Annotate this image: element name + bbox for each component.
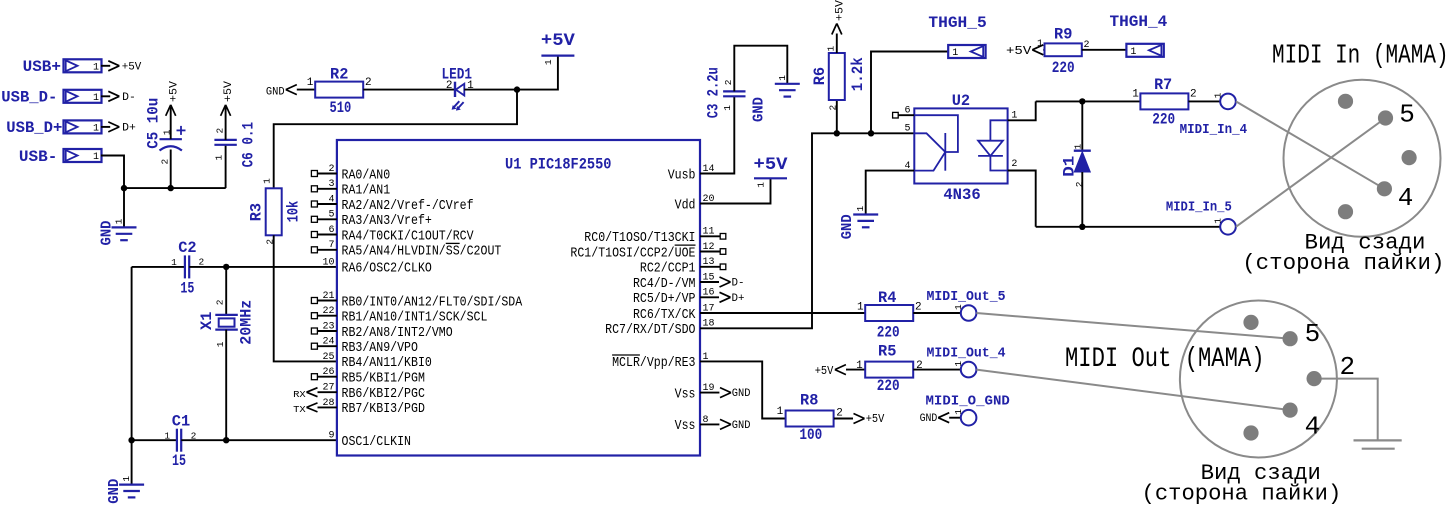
MIDI Out pin label 2 <box>1340 352 1356 382</box>
IC U1 pin 21 RB0/INT0/AN12/FLT0/SDI/SDA <box>311 291 522 310</box>
IC U1 PIC18F2550 body <box>337 140 700 456</box>
gray link pin 2 to earth <box>1314 379 1378 441</box>
svg-text:220: 220 <box>877 377 900 395</box>
wire R3 to pin 25 <box>274 235 337 361</box>
svg-text:+5V: +5V <box>223 81 235 102</box>
svg-text:1: 1 <box>213 155 224 161</box>
svg-text:RC4/D-/VM: RC4/D-/VM <box>633 276 696 292</box>
svg-text:C2: C2 <box>178 239 196 257</box>
svg-text:1: 1 <box>164 430 170 441</box>
MIDI Out socket pin dot top <box>1243 315 1258 330</box>
svg-text:RA6/OSC2/CLKO: RA6/OSC2/CLKO <box>342 261 432 277</box>
resistor R7 220 <box>1132 76 1196 128</box>
svg-text:1: 1 <box>777 75 788 81</box>
MIDI Out socket pin dot p2 <box>1307 371 1322 386</box>
MIDI In socket pin dot p5 <box>1378 110 1393 125</box>
svg-text:R8: R8 <box>800 392 818 410</box>
MIDI Out socket pin dot bot <box>1243 425 1258 440</box>
svg-text:1: 1 <box>93 124 99 135</box>
svg-text:RA4/T0CKI/C1OUT/RCV: RA4/T0CKI/C1OUT/RCV <box>342 228 475 244</box>
IC U1 pin 15 RC4/D-/VM + net flag D- <box>633 272 745 291</box>
wire top rail (U2.1 to R7) <box>1036 100 1141 102</box>
net flag RX (pin 27) <box>293 388 337 400</box>
gray link MIDI_In_4 to pin 4 <box>1236 101 1385 188</box>
IC U1 pin 20 Vdd <box>675 194 715 213</box>
net flag +5V (R8) <box>834 412 885 426</box>
wire R2 to LED1 <box>363 89 455 91</box>
svg-text:USB-: USB- <box>19 148 57 166</box>
svg-text:R7: R7 <box>1154 76 1172 94</box>
wire C2 corner down to C1 <box>131 267 133 440</box>
IC U1 pin 7 RA5/AN4/HLVDIN/SS/C2OUT <box>311 240 501 259</box>
svg-text:RA0/AN0: RA0/AN0 <box>342 167 391 183</box>
gray link MIDI_In_5 to pin 5 <box>1236 118 1386 227</box>
wire USB- to ground rail <box>101 156 226 189</box>
svg-text:4: 4 <box>1398 183 1414 213</box>
connector THGH_4 <box>1110 13 1168 58</box>
net flag GND (R2) <box>266 85 315 99</box>
svg-text:RB3/AN9/VPO: RB3/AN9/VPO <box>342 340 418 356</box>
power +5V (LED rail) <box>541 31 576 65</box>
capacitor C1 15 <box>132 413 337 471</box>
svg-text:THGH_5: THGH_5 <box>928 14 986 32</box>
svg-text:RC7/RX/DT/SDO: RC7/RX/DT/SDO <box>605 322 695 338</box>
svg-text:GND: GND <box>98 221 115 246</box>
resistor R8 100 <box>777 392 843 444</box>
svg-text:RB2/AN8/INT2/VMO: RB2/AN8/INT2/VMO <box>342 325 453 341</box>
svg-text:1: 1 <box>1037 39 1043 50</box>
svg-text:5: 5 <box>1305 319 1321 349</box>
svg-text:1: 1 <box>952 48 958 59</box>
svg-text:1: 1 <box>756 182 767 188</box>
wire R9 to THGH_4 <box>1082 49 1127 51</box>
IC U1 pin 10 RA6/OSC2/CLKO <box>322 257 431 276</box>
svg-text:220: 220 <box>877 324 900 342</box>
svg-text:RA5/AN4/HLVDIN/SS/C2OUT: RA5/AN4/HLVDIN/SS/C2OUT <box>342 244 502 260</box>
IC U1 pin 11 RC0/T1OSO/T13CKI <box>584 227 726 246</box>
svg-text:2: 2 <box>159 159 170 165</box>
gray link MIDI_Out_5 to pin 5 <box>976 313 1290 339</box>
connector USB_D+ (net label D+) <box>6 119 136 137</box>
IC U1 pin 13 RC2/CCP1 <box>640 257 726 276</box>
svg-text:MIDI_In_4: MIDI_In_4 <box>1180 123 1248 138</box>
wire junction down to R3 <box>274 90 517 189</box>
gray link MIDI_Out_4 to pin 4 <box>976 370 1290 411</box>
svg-text:1: 1 <box>1130 47 1136 58</box>
junction D1 bottom <box>1079 224 1085 230</box>
svg-text:9: 9 <box>328 431 334 442</box>
connector USB_D- (net label D-) <box>1 89 136 107</box>
svg-text:C5 10u: C5 10u <box>145 98 163 149</box>
wire pin14 to C3 <box>700 96 734 173</box>
IC U1 pin 14 Vusb <box>668 164 715 183</box>
svg-text:GND: GND <box>266 87 285 99</box>
MIDI Out pin label 4 <box>1305 412 1321 442</box>
junction C2/X1 <box>223 264 229 270</box>
U2 pin 4 (emitter) wire to GND <box>866 161 915 215</box>
resistor R6 1.2k <box>811 0 867 133</box>
svg-text:1: 1 <box>93 152 99 163</box>
svg-text:25: 25 <box>322 352 334 363</box>
svg-text:1: 1 <box>856 360 863 372</box>
svg-text:2: 2 <box>1190 88 1197 100</box>
connector USB- <box>19 148 102 166</box>
MIDI In socket pin dot r <box>1402 150 1417 165</box>
label MIDI In (MAMA) <box>1272 42 1449 72</box>
svg-text:+5V: +5V <box>122 61 142 73</box>
svg-text:2: 2 <box>915 302 922 314</box>
IC U1 pin 3 RA1/AN1 <box>311 179 390 198</box>
svg-text:2: 2 <box>214 128 225 134</box>
U2 pin 5 label <box>905 124 911 135</box>
caption MIDI In line 1 <box>1305 230 1426 256</box>
svg-text:D-: D- <box>122 92 136 104</box>
svg-text:1: 1 <box>93 93 99 104</box>
IC U1 pin 17 RC6/TX/CK <box>633 303 715 322</box>
svg-text:+5V: +5V <box>815 364 834 378</box>
IC U1 pin 12 RC1/T1OSI/CCP2/UOE <box>570 242 725 261</box>
svg-text:RB4/AN11/KBI0: RB4/AN11/KBI0 <box>342 355 432 371</box>
svg-text:1: 1 <box>171 257 177 268</box>
svg-text:D+: D+ <box>732 293 745 305</box>
IC U1 pin 6 RA4/T0CKI/C1OUT/RCV <box>311 225 474 244</box>
svg-text:D1: D1 <box>1060 156 1078 177</box>
svg-text:MIDI Out (MAMA): MIDI Out (MAMA) <box>1065 344 1265 375</box>
svg-text:GND: GND <box>751 97 768 122</box>
svg-text:1: 1 <box>1011 111 1017 122</box>
svg-text:1: 1 <box>777 406 784 418</box>
terminal MIDI_In_4 <box>1180 92 1248 138</box>
resistor R3 10k <box>248 178 303 245</box>
capacitor C6 0.1 <box>213 81 257 189</box>
svg-text:10: 10 <box>322 257 334 268</box>
IC U1 pin 28 RB7/KBI3/PGD <box>322 398 424 417</box>
svg-text:2: 2 <box>199 256 205 267</box>
svg-text:R6: R6 <box>811 67 829 85</box>
ground GND (C1) <box>106 440 144 504</box>
junction C1/GND <box>128 437 134 443</box>
svg-text:2: 2 <box>446 80 453 92</box>
wire pin20 to +5V bar <box>700 178 771 203</box>
svg-text:MIDI_Out_4: MIDI_Out_4 <box>927 347 1006 362</box>
power +5V (Vdd) <box>754 155 789 188</box>
terminal MIDI_In_5 <box>1166 201 1236 235</box>
svg-text:1: 1 <box>857 302 864 314</box>
net flag +5V (R9) <box>1006 44 1045 58</box>
svg-text:Vss: Vss <box>675 418 696 434</box>
svg-text:MIDI_Out_5: MIDI_Out_5 <box>927 290 1006 305</box>
svg-text:GND: GND <box>732 420 751 432</box>
svg-text:RB1/AN10/INT1/SCK/SCL: RB1/AN10/INT1/SCK/SCL <box>342 310 488 326</box>
svg-text:THGH_4: THGH_4 <box>1110 13 1168 31</box>
svg-text:1: 1 <box>953 361 964 367</box>
svg-text:220: 220 <box>1052 59 1075 77</box>
svg-text:C3 2.2u: C3 2.2u <box>705 67 723 118</box>
ground GND (U2) <box>839 206 878 240</box>
terminal MIDI_Out_4 <box>927 347 1006 378</box>
svg-text:U1 PIC18F2550: U1 PIC18F2550 <box>505 156 612 174</box>
svg-text:2: 2 <box>1074 181 1085 187</box>
resistor R2 510 <box>307 65 372 117</box>
connector USB+ (net label +5V) <box>23 58 142 76</box>
svg-text:RC0/T1OSO/T13CKI: RC0/T1OSO/T13CKI <box>584 230 695 246</box>
svg-text:MIDI In (MAMA): MIDI In (MAMA) <box>1272 42 1449 72</box>
IC U1 pin 8 Vss + net flag GND <box>675 415 751 434</box>
earth ground (gray) <box>1354 440 1402 448</box>
svg-text:RC1/T1OSI/CCP2/UOE: RC1/T1OSI/CCP2/UOE <box>570 245 695 261</box>
junction R6/rail <box>834 130 840 136</box>
svg-text:1: 1 <box>543 59 554 65</box>
svg-text:5: 5 <box>1399 99 1415 129</box>
IC U1 pin 19 Vss + net flag GND <box>675 383 751 402</box>
junction D1 top <box>1079 98 1085 104</box>
svg-text:+5V: +5V <box>754 155 789 175</box>
svg-text:TX: TX <box>293 404 306 415</box>
svg-text:220: 220 <box>1152 110 1175 128</box>
svg-text:2: 2 <box>723 79 734 85</box>
svg-text:+5V: +5V <box>168 81 180 102</box>
svg-text:RC5/D+/VP: RC5/D+/VP <box>633 291 696 307</box>
LED LED1 <box>441 66 474 111</box>
svg-text:4: 4 <box>1305 412 1321 442</box>
MIDI In pin label 5 <box>1399 99 1415 129</box>
svg-text:2: 2 <box>215 299 226 305</box>
svg-text:1: 1 <box>262 178 273 184</box>
svg-text:RB5/KBI1/PGM: RB5/KBI1/PGM <box>342 371 425 387</box>
terminal MIDI_Out_5 <box>927 290 1006 321</box>
svg-text:1: 1 <box>215 341 226 347</box>
svg-text:RB6/KBI2/PGC: RB6/KBI2/PGC <box>342 386 425 402</box>
wire pin17 to R4 <box>700 312 865 314</box>
svg-text:510: 510 <box>330 99 352 117</box>
svg-text:2: 2 <box>827 105 838 111</box>
svg-text:R5: R5 <box>878 343 896 361</box>
wire R4 to terminal <box>913 312 961 314</box>
wire pin1 MCLR to R8 <box>700 361 785 418</box>
label MIDI Out (MAMA) <box>1065 344 1265 375</box>
wire bottom rail <box>1036 226 1221 228</box>
svg-text:2: 2 <box>365 77 372 89</box>
IC U1 pin 5 RA3/AN3/Vref+ <box>311 210 431 229</box>
svg-text:U2: U2 <box>952 92 970 110</box>
svg-text:1: 1 <box>93 62 99 73</box>
terminal MIDI_O_GND <box>926 395 1010 426</box>
svg-text:RB0/INT0/AN12/FLT0/SDI/SDA: RB0/INT0/AN12/FLT0/SDI/SDA <box>342 294 523 310</box>
IC U1 pin 23 RB2/AN8/INT2/VMO <box>311 321 452 340</box>
wire R7 to terminal <box>1188 100 1220 102</box>
svg-text:Vusb: Vusb <box>668 167 696 183</box>
junction THGH5/rail <box>868 130 874 136</box>
U2 pin 1 wire <box>1008 101 1036 121</box>
svg-text:RC6/TX/CK: RC6/TX/CK <box>633 307 696 323</box>
net flag +5V (R5) <box>815 364 866 378</box>
IC U1 pin 24 RB3/AN9/VPO <box>311 337 418 356</box>
crystal X1 20MHz <box>198 267 256 440</box>
net flag TX (pin 28) <box>293 403 337 415</box>
svg-text:GND: GND <box>839 214 856 239</box>
svg-text:(сторона пайки): (сторона пайки) <box>1242 250 1444 276</box>
svg-text:GND: GND <box>732 388 751 400</box>
svg-text:OSC1/CLKIN: OSC1/CLKIN <box>342 434 412 450</box>
svg-text:RA2/AN2/Vref-/CVref: RA2/AN2/Vref-/CVref <box>342 198 474 214</box>
svg-text:RA1/AN1: RA1/AN1 <box>342 183 391 199</box>
svg-text:20MHz: 20MHz <box>238 300 256 345</box>
capacitor C3 2.2u <box>705 46 788 119</box>
caption MIDI Out line 2 <box>1142 481 1342 507</box>
svg-text:RC2/CCP1: RC2/CCP1 <box>640 261 696 277</box>
resistor R5 220 <box>856 343 923 395</box>
svg-text:1: 1 <box>825 46 836 52</box>
svg-text:1: 1 <box>307 77 314 89</box>
junction USB-/GND <box>121 185 127 191</box>
svg-text:C1: C1 <box>172 413 190 431</box>
svg-text:100: 100 <box>799 426 822 444</box>
capacitor C2 15 <box>132 239 337 297</box>
U2 pin 6 (base, unconnected) <box>893 106 915 119</box>
svg-text:5: 5 <box>905 124 911 135</box>
svg-text:+5V: +5V <box>1006 44 1032 58</box>
svg-text:X1: X1 <box>198 312 216 330</box>
caption MIDI In line 2 <box>1242 250 1444 276</box>
svg-text:R2: R2 <box>330 65 348 83</box>
IC U1 pin 9 OSC1/CLKIN <box>328 431 411 450</box>
svg-text:USB+: USB+ <box>23 58 61 76</box>
wire LED1 to +5V <box>464 89 517 91</box>
IC U1 pin 16 RC5/D+/VP + net flag D+ <box>633 288 745 307</box>
svg-text:MCLR/Vpp/RE3: MCLR/Vpp/RE3 <box>612 355 695 371</box>
svg-text:+5V: +5V <box>541 31 576 51</box>
svg-text:1: 1 <box>1213 92 1224 98</box>
ground GND (C3) <box>751 75 800 122</box>
svg-text:MIDI_O_GND: MIDI_O_GND <box>926 395 1010 410</box>
MIDI In socket pin dot bl <box>1338 204 1353 219</box>
wire THGH5 leg <box>871 52 948 134</box>
junction LED/+5V/R3 <box>514 86 520 92</box>
IC U1 pin 27 RB6/KBI2/PGC <box>322 383 424 402</box>
resistor R4 220 <box>857 289 922 342</box>
svg-text:10k: 10k <box>285 201 303 223</box>
svg-text:Vdd: Vdd <box>675 197 696 213</box>
resistor R9 220 <box>1037 26 1090 77</box>
svg-text:1: 1 <box>1213 218 1224 224</box>
U2 internal LED <box>978 120 1008 170</box>
svg-text:RB7/KBI3/PGD: RB7/KBI3/PGD <box>342 401 425 417</box>
svg-text:1: 1 <box>162 129 173 135</box>
IC U1 pin 26 RB5/KBI1/PGM <box>311 367 425 386</box>
svg-text:RA3/AN3/Vref+: RA3/AN3/Vref+ <box>342 213 432 229</box>
MIDI Out socket circle <box>1180 301 1337 458</box>
svg-text:1.2k: 1.2k <box>849 57 867 91</box>
svg-text:D-: D- <box>732 278 745 290</box>
U2 pin 2 wire <box>1008 159 1036 227</box>
svg-text:RX: RX <box>293 389 306 400</box>
svg-text:R4: R4 <box>878 289 897 307</box>
ground GND (USB) <box>98 188 136 245</box>
svg-text:Vss: Vss <box>675 386 696 402</box>
svg-text:(сторона пайки): (сторона пайки) <box>1142 481 1342 507</box>
MIDI In socket pin dot tl <box>1338 94 1353 109</box>
svg-text:15: 15 <box>180 279 194 297</box>
IC U1 pin 22 RB1/AN10/INT1/SCK/SCL <box>311 306 487 325</box>
MIDI Out socket pin dot p4 <box>1283 403 1298 418</box>
svg-text:+5V: +5V <box>866 412 885 426</box>
IC U1 pin 1 MCLR/Vpp/RE3 <box>612 352 708 371</box>
svg-text:R3: R3 <box>248 203 266 221</box>
svg-text:15: 15 <box>172 452 186 470</box>
svg-text:4N36: 4N36 <box>943 186 980 204</box>
IC U1 pin 2 RA0/AN0 <box>311 164 390 183</box>
connector THGH_5 <box>928 14 986 59</box>
svg-text:C6 0.1: C6 0.1 <box>240 122 258 168</box>
wire R5 to terminal <box>913 369 961 371</box>
IC U1 pin 25 RB4/AN11/KBI0 <box>322 352 431 371</box>
optocoupler U2 4N36 body <box>914 92 1007 204</box>
MIDI Out pin label 5 <box>1305 319 1321 349</box>
junction C1/X1 <box>223 437 229 443</box>
svg-text:GND: GND <box>106 479 123 504</box>
IC U1 pin 18 RC7/RX/DT/SDO <box>605 319 714 338</box>
svg-text:GND: GND <box>920 413 938 425</box>
wire junction up to +5V bar <box>517 56 558 90</box>
MIDI In socket pin dot p4 <box>1377 181 1392 196</box>
capacitor C5 10u (polarized) <box>145 81 186 189</box>
svg-text:R9: R9 <box>1054 26 1072 44</box>
MIDI In pin label 4 <box>1398 183 1414 213</box>
MIDI Out socket pin dot p5 <box>1283 331 1298 346</box>
IC U1 pin 4 RA2/AN2/Vref-/CVref <box>311 194 473 213</box>
U2 phototransistor <box>914 115 958 171</box>
svg-text:D+: D+ <box>122 122 136 134</box>
caption MIDI Out line 1 <box>1201 460 1321 486</box>
svg-text:USB_D+: USB_D+ <box>6 119 62 137</box>
svg-text:1: 1 <box>855 206 866 212</box>
MIDI In socket circle <box>1284 80 1441 237</box>
svg-text:MIDI_In_5: MIDI_In_5 <box>1166 201 1232 216</box>
svg-text:USB_D-: USB_D- <box>1 89 57 107</box>
svg-text:6: 6 <box>905 106 911 117</box>
svg-text:2: 2 <box>1011 159 1017 170</box>
diode D1 <box>1060 101 1090 226</box>
svg-text:2: 2 <box>191 430 197 441</box>
wire pin18 riser to opto rail <box>700 133 914 328</box>
svg-text:2: 2 <box>1340 352 1356 382</box>
svg-text:1: 1 <box>722 105 733 111</box>
net flag GND (MIDI_O_GND) <box>920 413 961 426</box>
junction C5 <box>168 185 174 191</box>
svg-text:1: 1 <box>1073 144 1084 150</box>
svg-text:+5V: +5V <box>834 0 846 21</box>
svg-text:1: 1 <box>1132 88 1139 100</box>
svg-text:4: 4 <box>905 161 911 172</box>
